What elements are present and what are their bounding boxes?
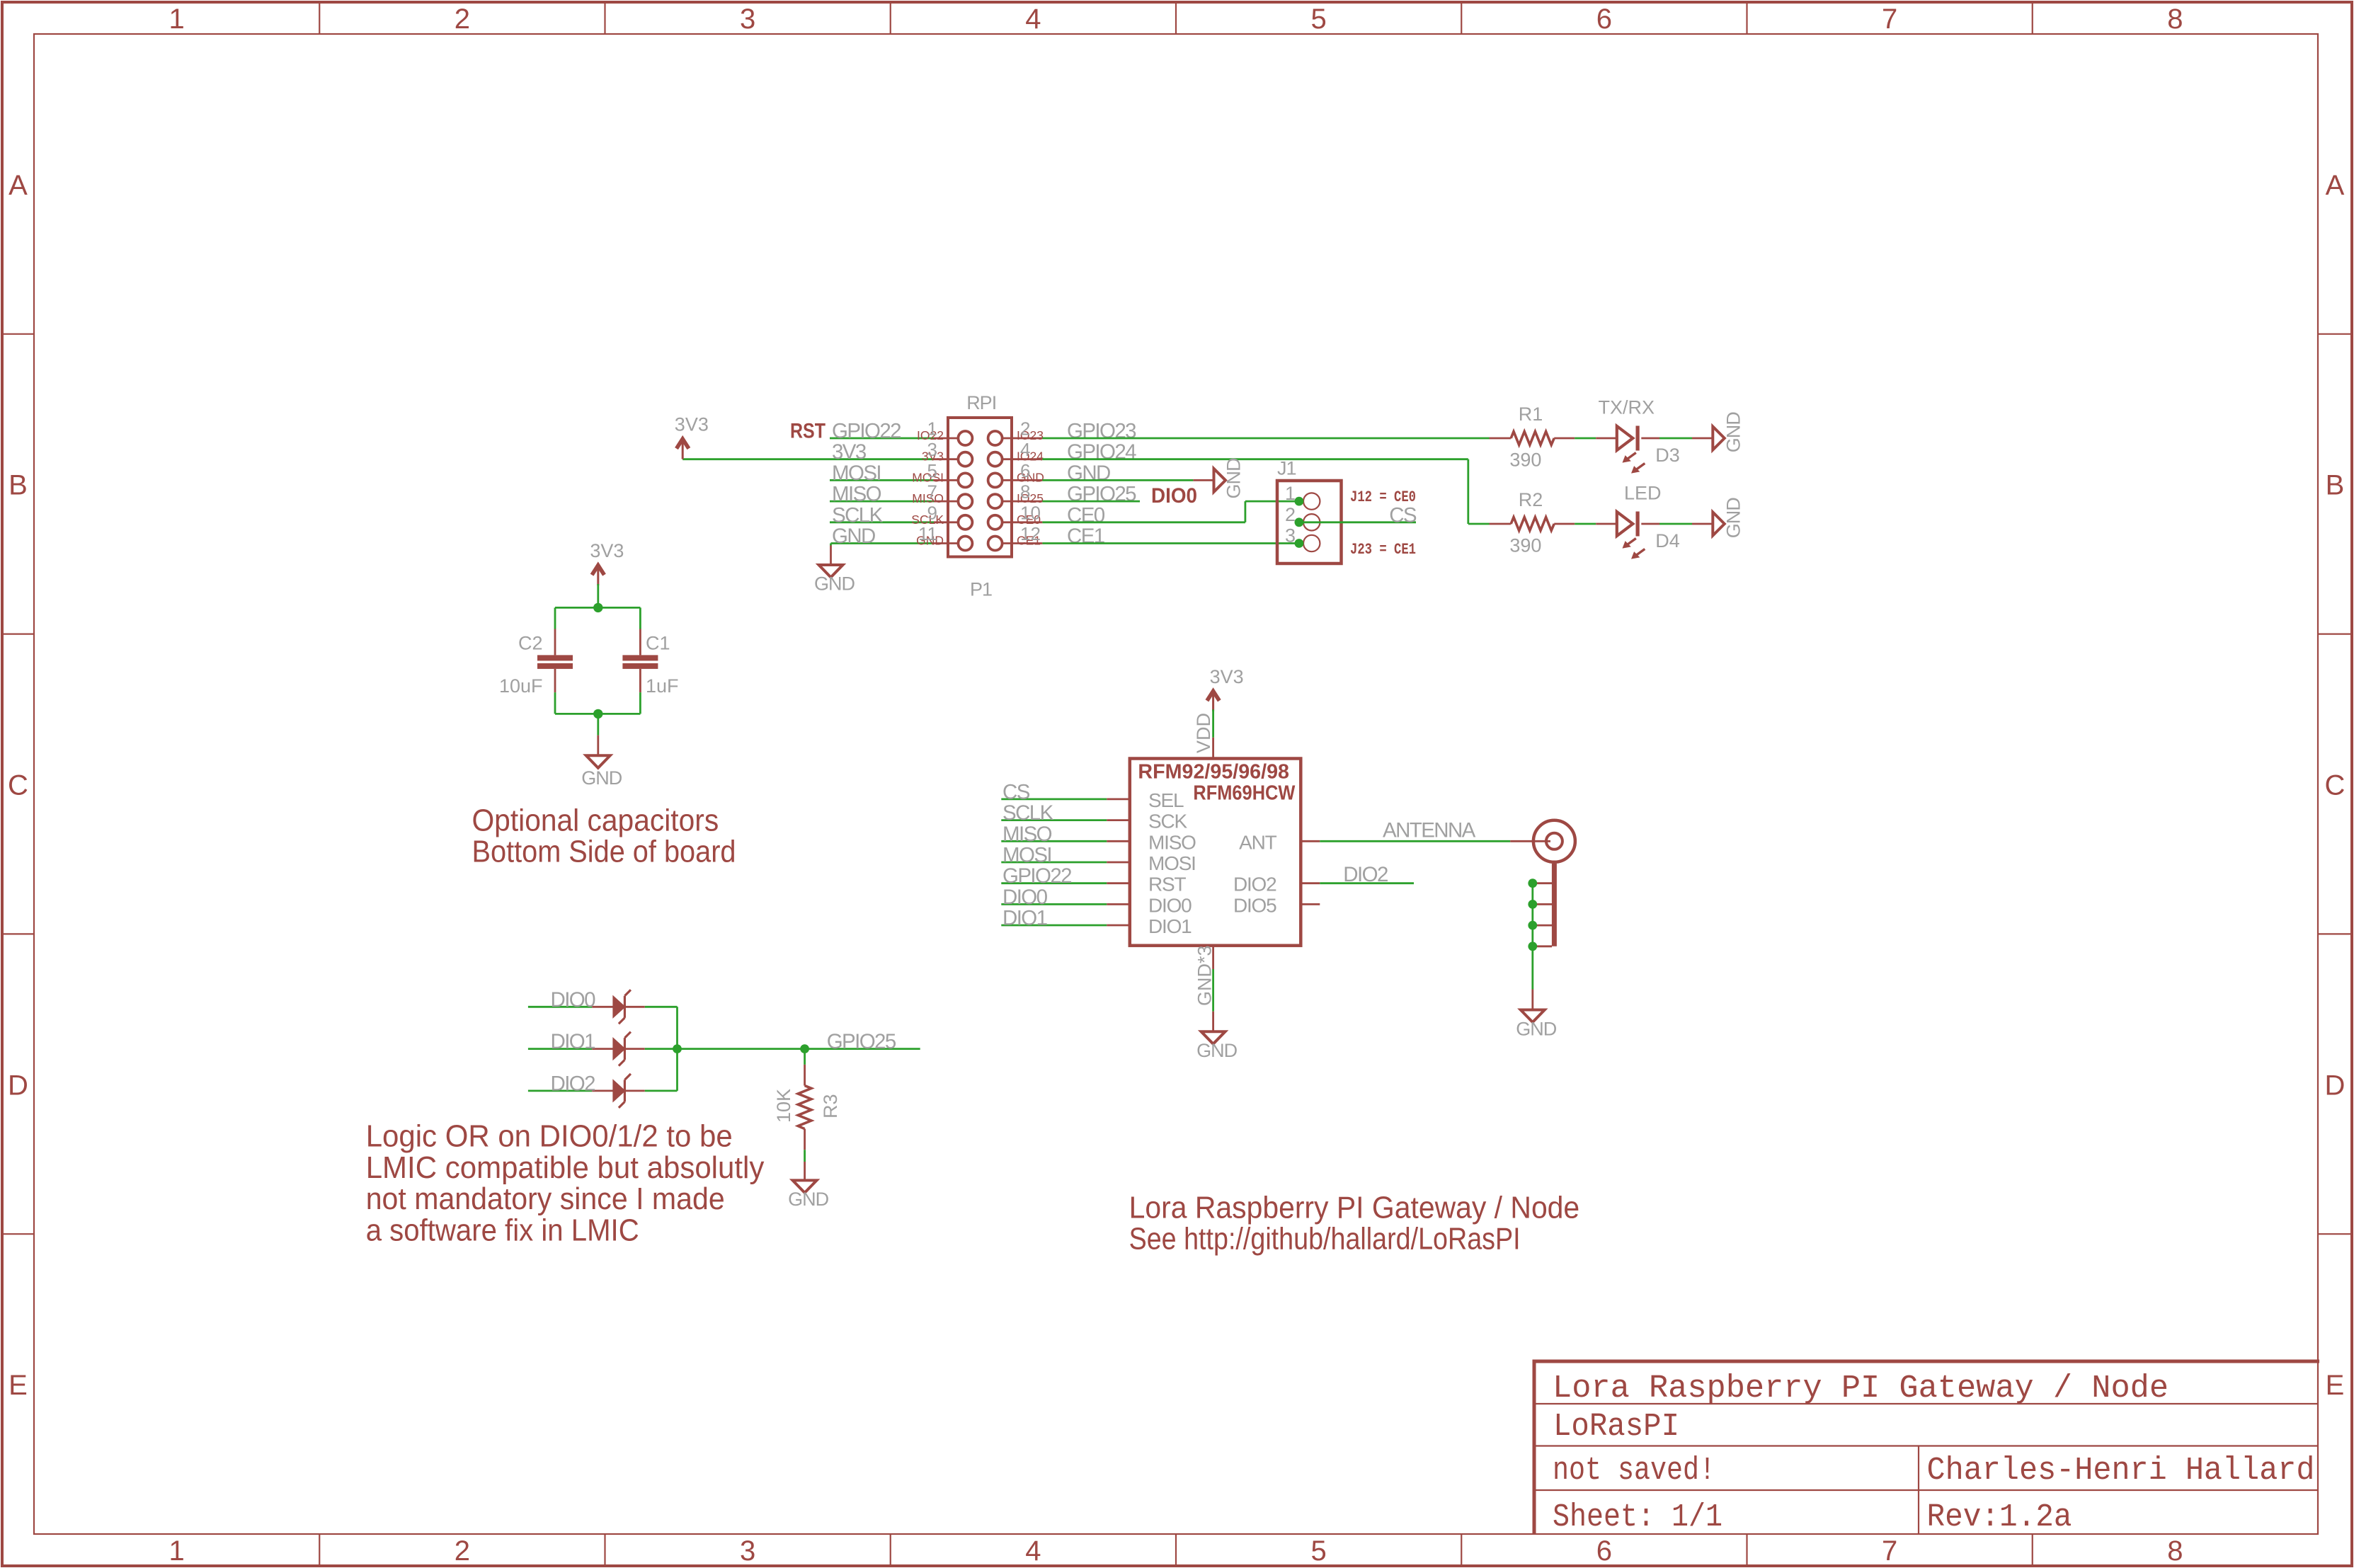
svg-text:J12 = CE0: J12 = CE0	[1350, 488, 1416, 506]
svg-text:not mandatory since I made: not mandatory since I made	[366, 1181, 725, 1216]
svg-text:Bottom Side of board: Bottom Side of board	[472, 835, 736, 869]
svg-text:1uF: 1uF	[646, 675, 679, 697]
svg-text:C: C	[8, 770, 28, 801]
svg-text:3V3: 3V3	[832, 440, 867, 464]
svg-text:DIO1: DIO1	[1002, 907, 1047, 930]
svg-text:2: 2	[455, 4, 470, 35]
svg-text:3V3: 3V3	[1210, 666, 1244, 687]
svg-text:12: 12	[1020, 523, 1041, 544]
svg-text:TX/RX: TX/RX	[1599, 397, 1655, 418]
svg-text:MOSI: MOSI	[832, 462, 881, 485]
svg-text:7: 7	[1882, 1535, 1897, 1567]
svg-text:D: D	[2325, 1070, 2346, 1101]
svg-text:Charles-Henri Hallard: Charles-Henri Hallard	[1927, 1453, 2315, 1489]
svg-text:DIO0: DIO0	[1151, 484, 1197, 508]
svg-text:DIO2: DIO2	[1233, 874, 1276, 895]
svg-text:GPIO22: GPIO22	[832, 420, 901, 443]
svg-text:RFM92/95/96/98: RFM92/95/96/98	[1138, 761, 1289, 784]
svg-text:Sheet: 1/1: Sheet: 1/1	[1553, 1499, 1722, 1535]
svg-text:GPIO23: GPIO23	[1067, 420, 1136, 443]
svg-text:See http://github/hallard/LoRa: See http://github/hallard/LoRasPI	[1129, 1222, 1521, 1257]
svg-text:10uF: 10uF	[499, 675, 543, 697]
svg-text:Rev:1.2a: Rev:1.2a	[1927, 1499, 2072, 1535]
svg-text:MISO: MISO	[832, 483, 881, 506]
svg-text:not saved!: not saved!	[1553, 1453, 1715, 1489]
svg-text:RPI: RPI	[966, 392, 996, 413]
svg-text:GND: GND	[1723, 498, 1744, 539]
svg-text:DIO2: DIO2	[1343, 863, 1388, 886]
svg-text:LMIC compatible but absolutly: LMIC compatible but absolutly	[366, 1150, 765, 1185]
svg-text:4: 4	[1025, 1535, 1041, 1567]
svg-text:GPIO25: GPIO25	[827, 1030, 896, 1053]
svg-text:4: 4	[1025, 4, 1041, 35]
svg-text:a software fix in LMIC: a software fix in LMIC	[366, 1213, 639, 1247]
svg-text:GND: GND	[581, 767, 622, 789]
svg-text:GPIO24: GPIO24	[1067, 440, 1136, 464]
svg-text:C2: C2	[518, 633, 543, 654]
svg-text:LED: LED	[1624, 483, 1662, 504]
svg-text:GND: GND	[814, 573, 855, 595]
svg-text:MISO: MISO	[1002, 823, 1052, 846]
svg-text:A: A	[2326, 170, 2345, 201]
svg-text:ANT: ANT	[1239, 831, 1276, 853]
svg-text:1: 1	[169, 1535, 185, 1567]
svg-text:8: 8	[2167, 1535, 2183, 1567]
svg-text:RST: RST	[1148, 874, 1186, 895]
svg-text:390: 390	[1509, 535, 1541, 556]
svg-text:CE0: CE0	[1067, 503, 1105, 527]
svg-text:R2: R2	[1519, 489, 1543, 510]
svg-text:GND: GND	[1516, 1019, 1557, 1040]
svg-text:C: C	[2325, 770, 2346, 801]
svg-text:1: 1	[927, 418, 937, 440]
svg-text:2: 2	[1285, 504, 1296, 525]
svg-text:B: B	[8, 470, 28, 501]
svg-text:D4: D4	[1655, 530, 1680, 551]
svg-text:J23 = CE1: J23 = CE1	[1350, 541, 1416, 559]
svg-text:CS: CS	[1389, 503, 1417, 527]
svg-text:8: 8	[1020, 481, 1030, 503]
svg-text:GPIO22: GPIO22	[1002, 864, 1071, 888]
svg-text:SCK: SCK	[1148, 811, 1187, 832]
svg-text:DIO0: DIO0	[1148, 894, 1192, 916]
svg-text:VDD: VDD	[1193, 713, 1214, 753]
svg-text:R1: R1	[1519, 404, 1543, 425]
svg-text:GND: GND	[1196, 1040, 1238, 1061]
svg-text:SCLK: SCLK	[832, 503, 884, 527]
svg-text:E: E	[8, 1370, 28, 1401]
svg-text:DIO1: DIO1	[1148, 915, 1192, 937]
svg-text:8: 8	[2167, 4, 2183, 35]
svg-text:11: 11	[918, 523, 937, 544]
svg-text:E: E	[2326, 1370, 2345, 1401]
svg-text:3: 3	[740, 4, 755, 35]
svg-text:CE1: CE1	[1067, 525, 1104, 548]
svg-text:RFM69HCW: RFM69HCW	[1193, 782, 1296, 805]
svg-text:Logic OR on DIO0/1/2 to be: Logic OR on DIO0/1/2 to be	[366, 1119, 733, 1154]
svg-text:GPIO25: GPIO25	[1067, 483, 1136, 506]
svg-text:GND: GND	[1223, 458, 1245, 499]
svg-text:2: 2	[455, 1535, 470, 1567]
svg-text:10K: 10K	[773, 1089, 794, 1123]
svg-text:3: 3	[740, 1535, 755, 1567]
svg-text:6: 6	[1596, 1535, 1612, 1567]
svg-text:DIO5: DIO5	[1233, 894, 1276, 916]
svg-text:390: 390	[1509, 450, 1541, 471]
svg-text:C1: C1	[646, 633, 670, 654]
svg-text:GND: GND	[1723, 412, 1744, 453]
svg-text:MISO: MISO	[1148, 831, 1196, 853]
svg-text:3: 3	[1285, 525, 1296, 546]
svg-text:GND: GND	[832, 525, 875, 548]
svg-text:ANTENNA: ANTENNA	[1383, 818, 1476, 842]
svg-text:1: 1	[169, 4, 185, 35]
svg-text:3V3: 3V3	[675, 414, 709, 435]
svg-text:Lora Raspberry PI Gateway / No: Lora Raspberry PI Gateway / Node	[1129, 1191, 1580, 1225]
svg-text:Optional capacitors: Optional capacitors	[472, 803, 719, 837]
svg-text:P1: P1	[970, 579, 992, 600]
svg-text:CS: CS	[1002, 780, 1030, 803]
svg-text:1: 1	[1285, 483, 1296, 504]
svg-text:R3: R3	[820, 1094, 841, 1118]
svg-text:9: 9	[927, 502, 937, 523]
svg-text:7: 7	[927, 481, 937, 503]
svg-text:GND*3: GND*3	[1194, 945, 1216, 1006]
svg-text:D3: D3	[1655, 445, 1680, 466]
svg-text:2: 2	[1020, 418, 1030, 440]
svg-text:6: 6	[1596, 4, 1612, 35]
svg-text:DIO2: DIO2	[551, 1072, 595, 1095]
svg-text:LoRasPI: LoRasPI	[1553, 1409, 1679, 1445]
svg-text:RST: RST	[790, 420, 825, 443]
svg-text:GND: GND	[788, 1189, 829, 1210]
svg-text:DIO1: DIO1	[551, 1030, 595, 1053]
svg-text:GND: GND	[1067, 462, 1110, 485]
svg-text:5: 5	[927, 460, 937, 481]
svg-text:4: 4	[1020, 439, 1030, 460]
svg-text:B: B	[2326, 470, 2345, 501]
svg-text:3: 3	[927, 439, 937, 460]
svg-text:J1: J1	[1277, 458, 1296, 479]
svg-text:6: 6	[1020, 460, 1030, 481]
svg-text:3V3: 3V3	[590, 540, 624, 561]
svg-text:A: A	[8, 170, 28, 201]
svg-text:Lora Raspberry PI Gateway / No: Lora Raspberry PI Gateway / Node	[1553, 1370, 2169, 1407]
svg-text:D: D	[8, 1070, 28, 1101]
svg-text:7: 7	[1882, 4, 1897, 35]
svg-text:5: 5	[1311, 4, 1327, 35]
svg-text:DIO0: DIO0	[551, 988, 596, 1012]
svg-text:SCLK: SCLK	[1002, 801, 1054, 825]
svg-text:DIO0: DIO0	[1002, 886, 1048, 909]
svg-text:5: 5	[1311, 1535, 1327, 1567]
svg-text:10: 10	[1020, 502, 1041, 523]
svg-text:MOSI: MOSI	[1148, 852, 1196, 874]
svg-text:MOSI: MOSI	[1002, 844, 1051, 867]
svg-text:SEL: SEL	[1148, 789, 1184, 811]
